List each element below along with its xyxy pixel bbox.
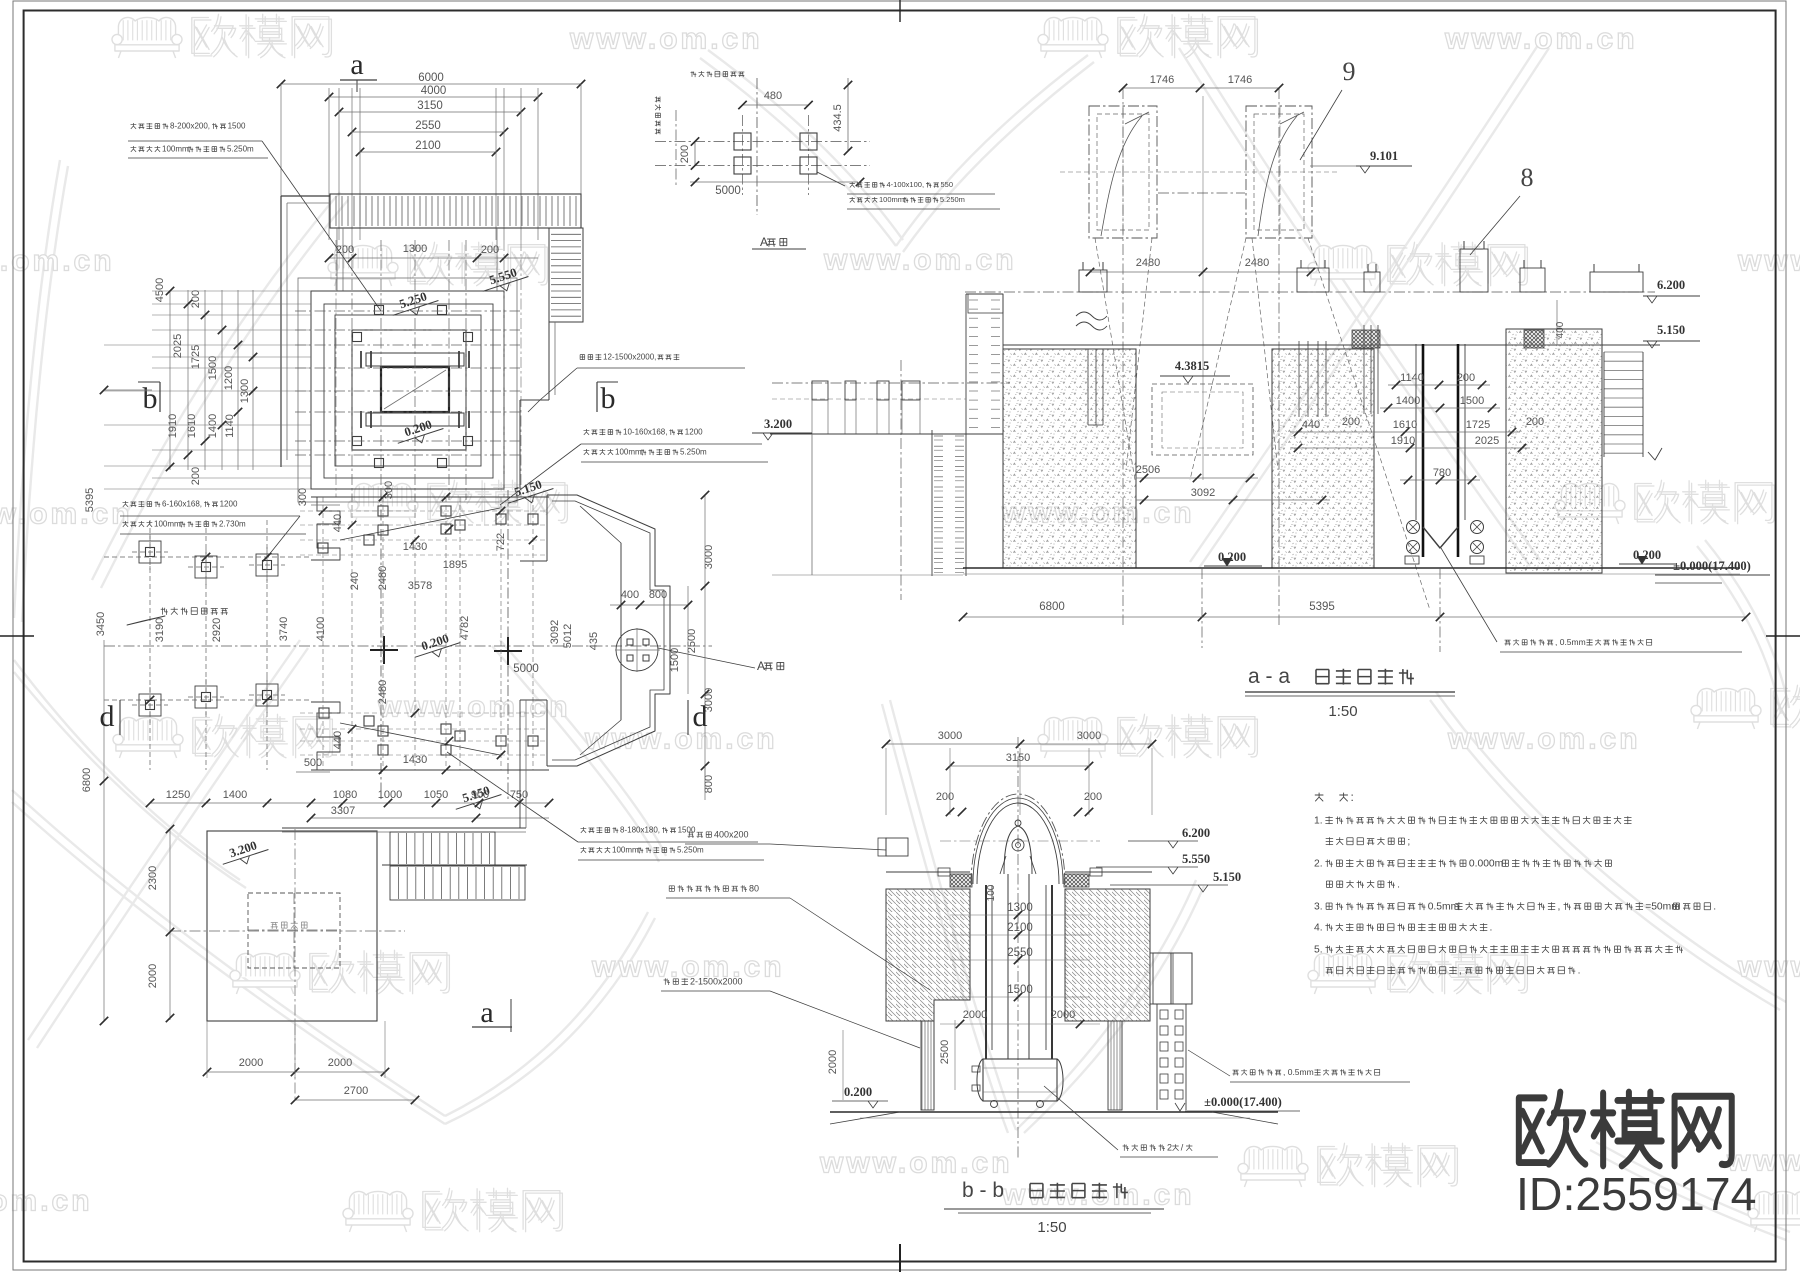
svg-text:434.5: 434.5 bbox=[832, 104, 844, 132]
svg-text:4000: 4000 bbox=[421, 85, 447, 97]
svg-text:3000: 3000 bbox=[938, 730, 962, 742]
svg-text:1500: 1500 bbox=[1460, 395, 1484, 407]
svg-text:A: A bbox=[757, 659, 765, 673]
svg-text:1000: 1000 bbox=[378, 789, 402, 801]
svg-text:4-100x100,: 4-100x100, bbox=[887, 180, 925, 189]
svg-text:3150: 3150 bbox=[417, 100, 443, 112]
svg-text:435: 435 bbox=[588, 632, 600, 650]
svg-text:2700: 2700 bbox=[344, 1085, 368, 1097]
svg-text:www.om.cn: www.om.cn bbox=[0, 498, 133, 531]
svg-text:5.550: 5.550 bbox=[1182, 852, 1210, 866]
svg-text:1500: 1500 bbox=[678, 826, 696, 835]
svg-text:3092: 3092 bbox=[1191, 487, 1215, 499]
svg-text:10-160x168,: 10-160x168, bbox=[623, 428, 667, 437]
svg-text:0.200: 0.200 bbox=[1633, 548, 1661, 562]
svg-text:100mm,: 100mm, bbox=[612, 846, 641, 855]
svg-text:200: 200 bbox=[1526, 416, 1544, 428]
svg-text:4.3815: 4.3815 bbox=[1175, 359, 1209, 373]
svg-text:100mm,: 100mm, bbox=[879, 195, 906, 204]
svg-text:3578: 3578 bbox=[408, 580, 432, 592]
svg-text:±0.000(17.400): ±0.000(17.400) bbox=[1204, 1095, 1282, 1109]
svg-text:0.000m: 0.000m bbox=[1469, 858, 1503, 869]
svg-text:9.101: 9.101 bbox=[1370, 149, 1398, 163]
svg-text:1250: 1250 bbox=[166, 789, 190, 801]
svg-text:www.om.cn: www.om.cn bbox=[0, 245, 115, 278]
svg-text:200: 200 bbox=[1457, 372, 1475, 384]
svg-text:1500: 1500 bbox=[228, 122, 246, 131]
svg-text:300: 300 bbox=[297, 488, 309, 506]
svg-text:a - a: a - a bbox=[1248, 665, 1290, 688]
svg-text:3307: 3307 bbox=[331, 805, 355, 817]
svg-text:, 0.5mm: , 0.5mm bbox=[1555, 637, 1586, 647]
svg-text:www.om.cn: www.om.cn bbox=[1444, 23, 1638, 56]
svg-text:www.om.cn: www.om.cn bbox=[584, 723, 778, 756]
svg-text:5395: 5395 bbox=[84, 488, 96, 512]
svg-text:www.om.cn: www.om.cn bbox=[591, 951, 785, 984]
svg-text:5000: 5000 bbox=[513, 663, 539, 675]
svg-text:d: d bbox=[100, 700, 115, 733]
svg-text:1430: 1430 bbox=[403, 541, 427, 553]
svg-text:www.om.cn: www.om.cn bbox=[1737, 951, 1800, 984]
svg-text:440: 440 bbox=[332, 514, 344, 532]
svg-text:6800: 6800 bbox=[81, 768, 93, 792]
svg-text:2300: 2300 bbox=[147, 866, 159, 890]
svg-text:2000: 2000 bbox=[239, 1057, 263, 1069]
svg-text:5012: 5012 bbox=[562, 624, 574, 648]
svg-text:900: 900 bbox=[471, 789, 489, 801]
svg-text:2920: 2920 bbox=[211, 618, 223, 642]
detail A (top center): anchor bolt layout bbox=[691, 71, 697, 77]
svg-text:100mm,: 100mm, bbox=[154, 520, 183, 529]
svg-text:8-200x200,: 8-200x200, bbox=[170, 122, 210, 131]
svg-text:440: 440 bbox=[1302, 419, 1320, 431]
svg-text:1140: 1140 bbox=[1400, 372, 1424, 384]
svg-text:550: 550 bbox=[941, 180, 954, 189]
svg-text:2100: 2100 bbox=[415, 140, 441, 152]
svg-text:3190: 3190 bbox=[154, 618, 166, 642]
svg-text:100mm,: 100mm, bbox=[162, 145, 191, 154]
svg-text:www.om.cn: www.om.cn bbox=[0, 1185, 93, 1218]
svg-text:1200: 1200 bbox=[685, 428, 703, 437]
svg-text:3.200: 3.200 bbox=[764, 417, 792, 431]
svg-text:2-1500x2000: 2-1500x2000 bbox=[690, 976, 743, 986]
svg-text:www.om.cn: www.om.cn bbox=[569, 23, 763, 56]
svg-text:0.200: 0.200 bbox=[844, 1085, 872, 1099]
svg-text:b: b bbox=[143, 382, 158, 415]
svg-text:2025: 2025 bbox=[1475, 435, 1499, 447]
svg-text:1.: 1. bbox=[1314, 815, 1323, 826]
svg-text:1746: 1746 bbox=[1150, 74, 1174, 86]
svg-text:2000: 2000 bbox=[1051, 1009, 1075, 1021]
svg-text:/: / bbox=[1181, 1142, 1184, 1152]
svg-text:2000: 2000 bbox=[963, 1009, 987, 1021]
svg-text:500: 500 bbox=[304, 757, 322, 769]
svg-text:1895: 1895 bbox=[443, 559, 467, 571]
svg-text:a: a bbox=[480, 996, 493, 1029]
svg-text:800: 800 bbox=[649, 589, 667, 601]
svg-text:200: 200 bbox=[481, 244, 499, 256]
svg-text:1610: 1610 bbox=[1393, 419, 1417, 431]
svg-text:240: 240 bbox=[349, 572, 361, 590]
svg-text:5395: 5395 bbox=[1309, 601, 1335, 613]
svg-text:8-180x180,: 8-180x180, bbox=[620, 826, 660, 835]
svg-text:5.250m: 5.250m bbox=[940, 195, 965, 204]
svg-text:4.: 4. bbox=[1314, 922, 1323, 933]
svg-text:440: 440 bbox=[332, 731, 344, 749]
section b-b elevation (bottom center) bbox=[886, 743, 1152, 745]
big gray omw logo and ID:2559174 bbox=[1519, 1092, 1732, 1166]
svg-text:2000: 2000 bbox=[827, 1050, 839, 1074]
svg-text:5.250m: 5.250m bbox=[677, 846, 704, 855]
svg-text:5.250m: 5.250m bbox=[680, 448, 707, 457]
svg-text:400x200: 400x200 bbox=[714, 829, 749, 839]
svg-text:2480: 2480 bbox=[1245, 257, 1269, 269]
svg-text:.: . bbox=[1713, 901, 1716, 912]
svg-text:1400: 1400 bbox=[207, 414, 219, 438]
svg-text:1080: 1080 bbox=[333, 789, 357, 801]
svg-text:200: 200 bbox=[1342, 416, 1360, 428]
svg-text:.: . bbox=[1578, 965, 1581, 976]
svg-text:200: 200 bbox=[679, 145, 691, 163]
svg-text:2000: 2000 bbox=[328, 1057, 352, 1069]
svg-text:6.200: 6.200 bbox=[1657, 278, 1685, 292]
svg-text:.: . bbox=[1397, 879, 1400, 890]
svg-text:5.250: 5.250 bbox=[398, 289, 429, 311]
shuoming notes text block bbox=[1315, 793, 1324, 802]
svg-text:±0.000(17.400): ±0.000(17.400) bbox=[1673, 559, 1751, 573]
svg-text:A: A bbox=[760, 235, 768, 249]
svg-text:80: 80 bbox=[749, 883, 759, 893]
svg-text:b: b bbox=[601, 382, 616, 415]
svg-text:www.om.cn: www.om.cn bbox=[377, 691, 571, 724]
svg-text::: : bbox=[1351, 790, 1354, 804]
svg-text:6000: 6000 bbox=[418, 72, 444, 84]
svg-text:200: 200 bbox=[1084, 791, 1102, 803]
svg-text:1910: 1910 bbox=[1391, 435, 1415, 447]
svg-text:1050: 1050 bbox=[424, 789, 448, 801]
svg-text:,: , bbox=[1558, 901, 1561, 912]
svg-text:5.: 5. bbox=[1314, 944, 1323, 955]
svg-text:8: 8 bbox=[1521, 163, 1534, 192]
svg-text:1400: 1400 bbox=[1396, 395, 1420, 407]
svg-text:200: 200 bbox=[190, 290, 202, 308]
svg-text:1725: 1725 bbox=[1466, 419, 1490, 431]
svg-text:12-1500x2000,: 12-1500x2000, bbox=[603, 353, 656, 362]
svg-text:100mm,: 100mm, bbox=[615, 448, 644, 457]
svg-text:0.5mm: 0.5mm bbox=[1428, 901, 1459, 912]
svg-text:300: 300 bbox=[383, 481, 395, 499]
svg-text:www.om.cn: www.om.cn bbox=[1447, 723, 1641, 756]
svg-text:1300: 1300 bbox=[403, 243, 427, 255]
svg-text:a: a bbox=[350, 48, 363, 81]
svg-text:2: 2 bbox=[1167, 1142, 1172, 1152]
svg-text:6800: 6800 bbox=[1039, 601, 1065, 613]
svg-text:100: 100 bbox=[986, 884, 997, 901]
svg-text:www.om.cn: www.om.cn bbox=[823, 244, 1017, 277]
svg-text:2025: 2025 bbox=[172, 334, 184, 358]
svg-text:1910: 1910 bbox=[167, 414, 179, 438]
svg-text:6-160x168,: 6-160x168, bbox=[162, 500, 202, 509]
svg-text:9: 9 bbox=[1343, 57, 1356, 86]
svg-text:.: . bbox=[1490, 922, 1493, 933]
svg-text:6.200: 6.200 bbox=[1182, 826, 1210, 840]
svg-text:1:50: 1:50 bbox=[1037, 1219, 1066, 1236]
svg-text:3092: 3092 bbox=[549, 620, 561, 644]
svg-text:3000: 3000 bbox=[1077, 730, 1101, 742]
svg-text:4500: 4500 bbox=[154, 278, 166, 302]
svg-text:1:50: 1:50 bbox=[1328, 703, 1357, 720]
svg-text:1430: 1430 bbox=[403, 754, 427, 766]
svg-text:b - b: b - b bbox=[962, 1179, 1004, 1202]
svg-text:3740: 3740 bbox=[278, 617, 290, 641]
svg-text:2.: 2. bbox=[1314, 858, 1323, 869]
svg-text:2480: 2480 bbox=[1136, 257, 1160, 269]
svg-text:200: 200 bbox=[190, 467, 202, 485]
svg-text:www.om.cn: www.om.cn bbox=[819, 1147, 1013, 1180]
svg-text:, 0.5mm: , 0.5mm bbox=[1283, 1067, 1314, 1077]
svg-text:1200: 1200 bbox=[223, 366, 235, 390]
svg-text:ID:2559174: ID:2559174 bbox=[1516, 1168, 1756, 1220]
svg-text:d: d bbox=[693, 700, 708, 733]
svg-text:0.200: 0.200 bbox=[403, 417, 434, 439]
svg-text:2000: 2000 bbox=[147, 964, 159, 988]
svg-text:5.250m: 5.250m bbox=[227, 145, 254, 154]
svg-text:3.200: 3.200 bbox=[228, 838, 259, 860]
svg-text:480: 480 bbox=[764, 90, 782, 102]
svg-text:2500: 2500 bbox=[939, 1040, 951, 1064]
svg-text:1746: 1746 bbox=[1228, 74, 1252, 86]
svg-text:1400: 1400 bbox=[223, 789, 247, 801]
svg-text:3450: 3450 bbox=[95, 612, 107, 636]
svg-text:4782: 4782 bbox=[459, 616, 471, 640]
svg-text:1200: 1200 bbox=[220, 500, 238, 509]
svg-text:2.730m: 2.730m bbox=[219, 520, 246, 529]
watermark layer: arcs, sofa logos, urls bbox=[92, 192, 340, 580]
svg-text:3.: 3. bbox=[1314, 901, 1323, 912]
svg-text:5.150: 5.150 bbox=[1657, 323, 1685, 337]
svg-text:200: 200 bbox=[936, 791, 954, 803]
svg-text:5000: 5000 bbox=[715, 185, 741, 197]
svg-text:5.150: 5.150 bbox=[1213, 870, 1241, 884]
section a-a elevation (top right) bbox=[1089, 106, 1157, 238]
svg-text:www.om.cn: www.om.cn bbox=[1737, 245, 1800, 278]
svg-text:,: , bbox=[1459, 965, 1462, 976]
svg-text:2550: 2550 bbox=[415, 120, 441, 132]
svg-text:4100: 4100 bbox=[315, 617, 327, 641]
svg-text:400: 400 bbox=[621, 589, 639, 601]
svg-text:1140: 1140 bbox=[224, 414, 236, 438]
svg-text:0.200: 0.200 bbox=[1218, 550, 1246, 564]
svg-text:;: ; bbox=[1407, 836, 1410, 847]
svg-text:750: 750 bbox=[510, 789, 528, 801]
